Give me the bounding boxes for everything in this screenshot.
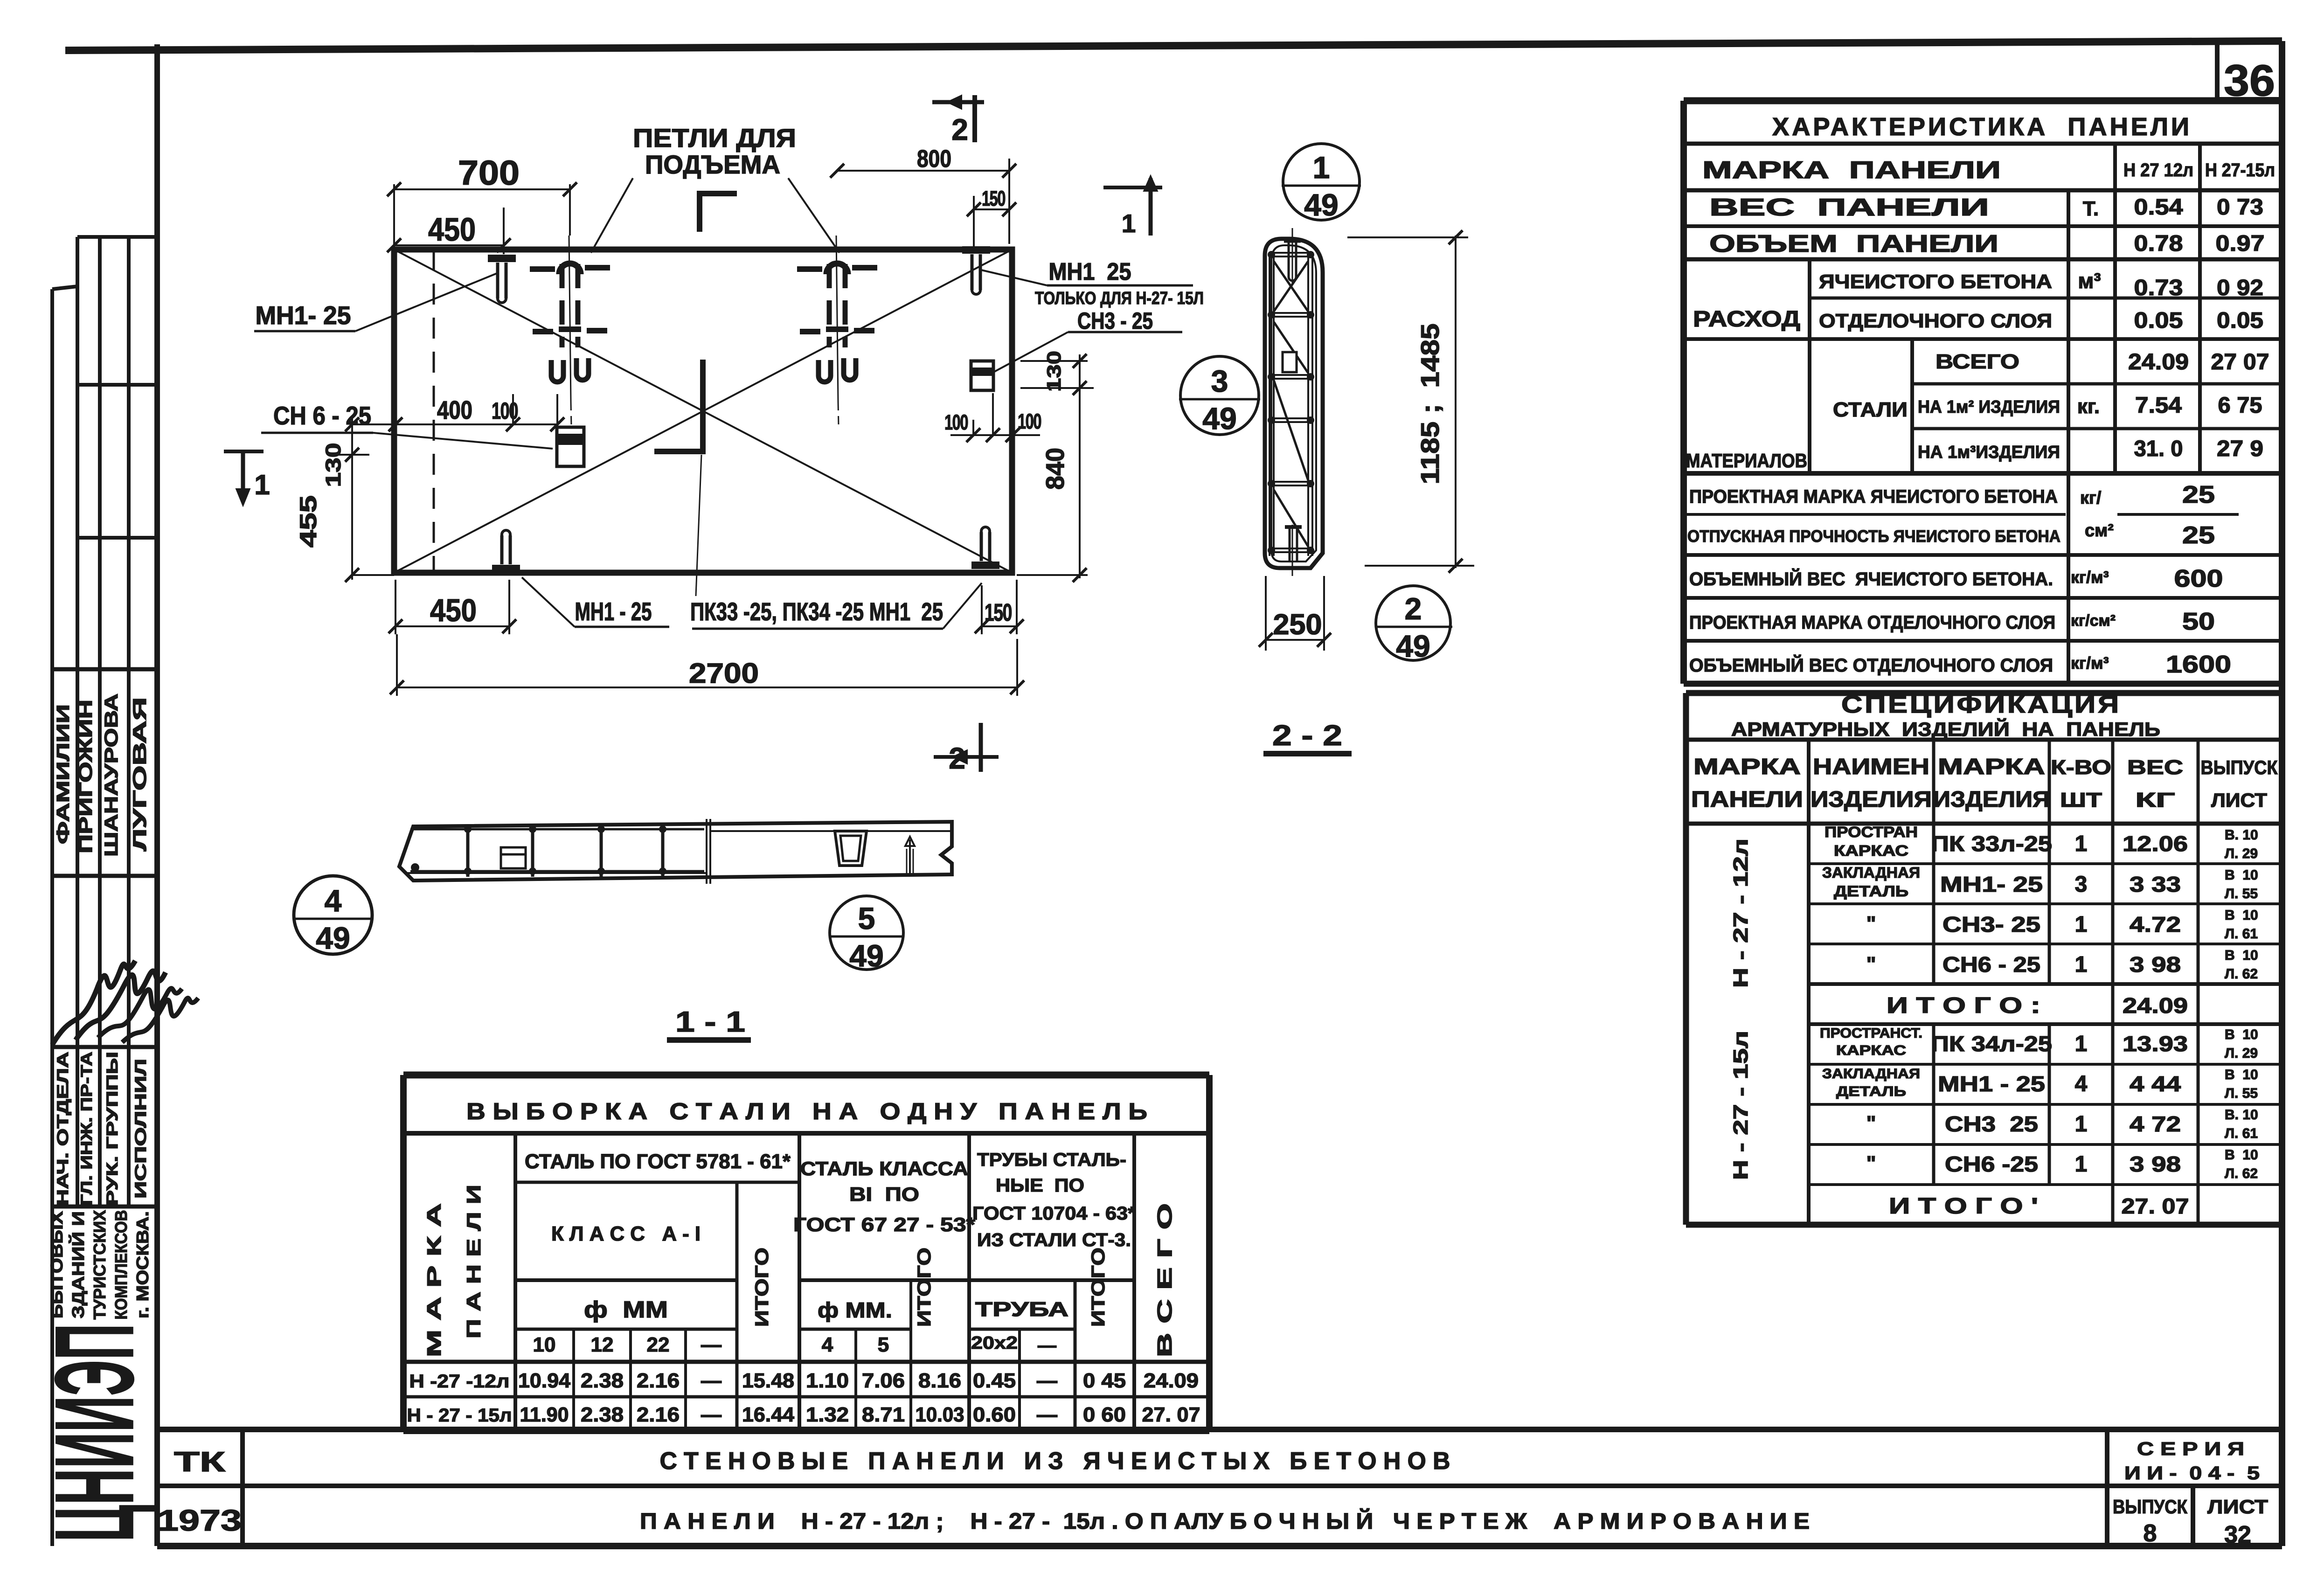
detail circle 1/49 [1282, 144, 1361, 222]
svg-text:ПРИГОЖИН: ПРИГОЖИН [76, 700, 96, 853]
svg-text:4 72: 4 72 [2130, 1112, 2181, 1136]
svg-text:10.03: 10.03 [916, 1403, 964, 1426]
svg-text:150: 150 [985, 599, 1012, 626]
svg-text:4: 4 [325, 883, 342, 918]
svg-text:455: 455 [295, 495, 321, 548]
svg-text:МН1- 25: МН1- 25 [256, 301, 351, 330]
svg-text:6 75: 6 75 [2218, 393, 2262, 418]
svg-text:1: 1 [2075, 952, 2088, 977]
svg-text:С Е Р И Я: С Е Р И Я [2137, 1439, 2244, 1459]
svg-text:3 33: 3 33 [2130, 872, 2181, 896]
svg-text:2.16: 2.16 [637, 1369, 680, 1392]
dim 400 100 left [388, 394, 564, 431]
svg-text:24.09: 24.09 [2128, 350, 2189, 374]
svg-text:50: 50 [2182, 608, 2215, 635]
svg-text:ЗАКЛАДНАЯ: ЗАКЛАДНАЯ [1822, 864, 1920, 881]
svg-text:НА 1м² ИЗДЕЛИЯ: НА 1м² ИЗДЕЛИЯ [1918, 397, 2060, 417]
svg-text:22: 22 [647, 1333, 670, 1356]
svg-text:1 - 1: 1 - 1 [675, 1006, 745, 1038]
svg-text:В 10: В 10 [2225, 908, 2258, 923]
svg-text:0.97: 0.97 [2216, 231, 2265, 256]
svg-text:МН1 - 25: МН1 - 25 [575, 597, 652, 626]
svg-text:СТАЛИ: СТАЛИ [1833, 398, 1908, 421]
svg-text:7.06: 7.06 [862, 1369, 905, 1392]
svg-text:ПК33 -25, ПК34 -25 МН1 25: ПК33 -25, ПК34 -25 МН1 25 [690, 598, 943, 626]
svg-text:0.78: 0.78 [2134, 231, 2183, 256]
svg-text:ОБЪЕМНЫЙ ВЕС ЯЧЕИСТОГО БЕТОНА: ОБЪЕМНЫЙ ВЕС ЯЧЕИСТОГО БЕТОНА. [1689, 568, 2053, 589]
svg-text:100: 100 [492, 398, 518, 424]
label 1-1 [667, 1006, 751, 1040]
svg-text:ИТОГО: ИТОГО [752, 1248, 772, 1327]
svg-text:1973: 1973 [158, 1504, 242, 1537]
svg-text:450: 450 [430, 593, 477, 628]
svg-text:ЗДАНИЙ И: ЗДАНИЙ И [68, 1211, 88, 1318]
svg-text:100: 100 [1018, 409, 1041, 433]
svg-text:—: — [701, 1369, 721, 1392]
svg-text:кг/см²: кг/см² [2071, 612, 2116, 630]
svg-text:12.06: 12.06 [2123, 832, 2188, 856]
svg-text:150: 150 [982, 187, 1006, 210]
svg-text:0.73: 0.73 [2134, 276, 2183, 300]
label petli dlya podyema [591, 123, 839, 253]
svg-text:КГ: КГ [2136, 789, 2175, 811]
svg-text:Л. 55: Л. 55 [2225, 1086, 2258, 1101]
lifting loop 2 [797, 236, 877, 425]
title block [157, 1429, 2282, 1546]
svg-text:ОБЪЕМ ПАНЕЛИ: ОБЪЕМ ПАНЕЛИ [1709, 230, 1998, 257]
svg-text:2: 2 [949, 742, 965, 775]
svg-text:М А Р К А: М А Р К А [423, 1203, 445, 1357]
svg-text:Л. 29: Л. 29 [2225, 1046, 2258, 1061]
table characteristics texts [1686, 113, 2275, 678]
svg-text:1: 1 [254, 469, 270, 500]
table steel texts [407, 1098, 1200, 1426]
svg-text:27 07: 27 07 [2211, 350, 2269, 374]
svg-text:В 10: В 10 [2225, 1067, 2258, 1082]
svg-text:ГОСТ 10704 - 63*: ГОСТ 10704 - 63* [972, 1203, 1136, 1224]
svg-text:": " [1866, 953, 1876, 976]
svg-text:2: 2 [951, 113, 968, 146]
dim 250 below section [1259, 576, 1331, 651]
label MH1-25 top left [254, 273, 498, 331]
svg-text:кг.: кг. [2077, 395, 2100, 418]
svg-text:ХАРАКТЕРИСТИКА ПАНЕЛИ: ХАРАКТЕРИСТИКА ПАНЕЛИ [1772, 113, 2192, 141]
embedded part CH6-25 [557, 427, 584, 466]
svg-text:Л. 61: Л. 61 [2225, 1126, 2258, 1141]
svg-text:1: 1 [1313, 150, 1330, 185]
svg-text:кг/м³: кг/м³ [2071, 568, 2109, 587]
svg-text:10.94: 10.94 [518, 1369, 571, 1392]
svg-text:ДЕТАЛЬ: ДЕТАЛЬ [1834, 883, 1908, 900]
svg-text:—: — [1038, 1335, 1056, 1356]
svg-text:130: 130 [321, 443, 345, 487]
svg-text:11.90: 11.90 [520, 1403, 569, 1426]
svg-text:СН3 - 25: СН3 - 25 [1077, 308, 1153, 334]
stamp names column (rotated) [54, 693, 150, 857]
svg-text:И И - 0 4 - 5: И И - 0 4 - 5 [2124, 1463, 2260, 1484]
table specification texts [1691, 691, 2278, 1219]
svg-text:ШАНАУРОВА: ШАНАУРОВА [101, 693, 122, 857]
svg-text:ИЗ СТАЛИ СТ-3.: ИЗ СТАЛИ СТ-3. [977, 1230, 1131, 1250]
label CH 6-25 left [261, 401, 553, 449]
svg-text:400: 400 [437, 395, 472, 424]
svg-text:—: — [1037, 1369, 1057, 1392]
svg-text:см²: см² [2085, 521, 2114, 541]
svg-text:Л. 62: Л. 62 [2225, 1166, 2258, 1181]
section mark 1 right [1103, 175, 1162, 238]
svg-text:49: 49 [1396, 629, 1430, 663]
svg-text:8.16: 8.16 [918, 1369, 961, 1392]
svg-text:ПРОСТРАНСТ.: ПРОСТРАНСТ. [1820, 1026, 1922, 1041]
svg-text:ПК 34л-25: ПК 34л-25 [1931, 1032, 2052, 1056]
dim 100 100 right [944, 393, 1041, 442]
svg-text:Л. 55: Л. 55 [2225, 886, 2258, 901]
anchor MH1-25 bottom right [971, 527, 999, 565]
panel diagonal 2 [394, 250, 1012, 573]
svg-text:31. 0: 31. 0 [2134, 437, 2183, 461]
svg-text:г. МОСКВА.: г. МОСКВА. [133, 1211, 152, 1318]
dim 130 right [1020, 351, 1094, 395]
svg-text:3 98: 3 98 [2130, 1152, 2181, 1176]
svg-text:1: 1 [1122, 209, 1136, 238]
svg-text:СН6 -25: СН6 -25 [1945, 1152, 2038, 1176]
svg-text:ДЕТАЛЬ: ДЕТАЛЬ [1836, 1084, 1906, 1099]
svg-text:ГЛ. ИНЖ. ПР-ТА: ГЛ. ИНЖ. ПР-ТА [78, 1052, 96, 1206]
dim 450 bottom [388, 580, 516, 634]
svg-text:49: 49 [1202, 401, 1236, 436]
section 2-2 reinforcement cage [1268, 251, 1314, 556]
svg-text:": " [1866, 1112, 1876, 1135]
svg-text:8: 8 [2144, 1520, 2157, 1547]
svg-text:2700: 2700 [689, 658, 759, 689]
svg-text:МАРКА: МАРКА [1938, 755, 2045, 779]
svg-text:16.44: 16.44 [742, 1403, 795, 1426]
svg-text:И Т О Г О ': И Т О Г О ' [1889, 1194, 2038, 1219]
svg-text:ВСЕГО: ВСЕГО [1936, 350, 2019, 373]
label MH1 25 right with leader [979, 258, 1204, 308]
svg-text:НАИМЕН: НАИМЕН [1813, 755, 1929, 779]
svg-text:КАРКАС: КАРКАС [1834, 842, 1908, 859]
svg-text:ПК 33л-25: ПК 33л-25 [1931, 832, 2052, 856]
svg-text:ф ММ.: ф ММ. [818, 1298, 892, 1322]
lifting loop 1 [530, 236, 610, 425]
svg-text:К Л А С С А - I: К Л А С С А - I [551, 1222, 701, 1245]
dim 840 right vertical [1017, 388, 1088, 582]
section mark 1 left [224, 451, 270, 506]
svg-text:СН3 25: СН3 25 [1945, 1112, 2038, 1136]
svg-text:РУК. ГРУППЫ: РУК. ГРУППЫ [104, 1052, 121, 1206]
svg-text:КОМПЛЕКСОВ: КОМПЛЕКСОВ [111, 1210, 131, 1320]
panel dashed reference line [433, 250, 435, 573]
svg-text:БЫТОВЫХ: БЫТОВЫХ [47, 1211, 66, 1318]
svg-text:ПАНЕЛИ: ПАНЕЛИ [1691, 787, 1803, 812]
dim 450 top [387, 208, 511, 254]
svg-text:7.54: 7.54 [2135, 393, 2182, 418]
svg-text:700: 700 [458, 153, 520, 192]
svg-text:ЛУГОВАЯ: ЛУГОВАЯ [130, 697, 150, 851]
svg-text:600: 600 [2174, 565, 2223, 592]
svg-text:24.09: 24.09 [1144, 1369, 1199, 1392]
label CH3-25 right with leader [994, 308, 1182, 372]
svg-text:Н - 27 - 12л: Н - 27 - 12л [1729, 839, 1752, 988]
svg-text:СПЕЦИФИКАЦИЯ: СПЕЦИФИКАЦИЯ [1841, 691, 2121, 718]
svg-text:И Т О Г О :: И Т О Г О : [1887, 993, 2040, 1018]
section mark 2 top [932, 95, 984, 146]
svg-text:—: — [701, 1403, 721, 1426]
svg-text:15.48: 15.48 [742, 1369, 794, 1392]
svg-text:2.38: 2.38 [581, 1369, 624, 1392]
svg-text:Н -27 -12л: Н -27 -12л [409, 1371, 510, 1392]
svg-text:Л. 29: Л. 29 [2225, 846, 2258, 861]
svg-text:1600: 1600 [2166, 651, 2231, 678]
svg-text:РАСХОД: РАСХОД [1693, 307, 1800, 332]
svg-text:П А Н Е Л И: П А Н Е Л И [463, 1185, 485, 1338]
svg-text:0.45: 0.45 [973, 1369, 1016, 1392]
section 1-1 embedded box detail [835, 831, 867, 866]
svg-text:МАРКА: МАРКА [1693, 755, 1801, 779]
svg-text:1: 1 [2075, 912, 2088, 937]
detail circle 2/49 [1375, 586, 1452, 663]
svg-text:0 73: 0 73 [2217, 195, 2263, 220]
svg-text:ПОДЪЕМА: ПОДЪЕМА [645, 150, 780, 179]
svg-text:Н 27 12л: Н 27 12л [2123, 160, 2193, 180]
svg-text:49: 49 [1304, 187, 1338, 222]
svg-text:ШТ: ШТ [2060, 789, 2102, 811]
svg-text:СН 6 - 25: СН 6 - 25 [273, 401, 371, 430]
svg-text:ВЫПУСК: ВЫПУСК [2113, 1496, 2187, 1518]
svg-text:НАЧ. ОТДЕЛА: НАЧ. ОТДЕЛА [54, 1052, 72, 1206]
svg-text:ВЫПУСК: ВЫПУСК [2201, 756, 2278, 778]
svg-text:450: 450 [428, 211, 476, 248]
svg-text:В С Е Г О: В С Е Г О [1153, 1203, 1176, 1357]
svg-text:ф ММ: ф ММ [584, 1297, 668, 1323]
svg-text:ИТОГО: ИТОГО [1088, 1248, 1109, 1327]
svg-text:К-ВО: К-ВО [2051, 756, 2111, 779]
svg-text:2: 2 [1405, 591, 1422, 626]
svg-text:2.38: 2.38 [581, 1403, 624, 1426]
svg-text:1: 1 [2075, 1152, 2088, 1177]
svg-text:": " [1866, 912, 1876, 935]
svg-text:КАРКАС: КАРКАС [1836, 1043, 1906, 1058]
svg-text:СН6 - 25: СН6 - 25 [1942, 952, 2040, 977]
section 1-1 reinforcement [410, 825, 704, 877]
page number box 36 [2217, 44, 2282, 105]
svg-text:1: 1 [2075, 1112, 2088, 1137]
svg-text:Т.: Т. [2083, 197, 2099, 220]
svg-text:ТРУБА: ТРУБА [975, 1298, 1068, 1321]
svg-text:ЛИСТ: ЛИСТ [2211, 789, 2267, 811]
svg-text:АРМАТУРНЫХ ИЗДЕЛИЙ НА ПАНЕЛ: АРМАТУРНЫХ ИЗДЕЛИЙ НА ПАНЕЛЬ [1731, 718, 2160, 740]
svg-text:ОБЪЕМНЫЙ ВЕС ОТДЕЛОЧНОГО СЛОЯ: ОБЪЕМНЫЙ ВЕС ОТДЕЛОЧНОГО СЛОЯ [1689, 654, 2053, 676]
svg-text:840: 840 [1041, 448, 1069, 490]
svg-text:Л. 61: Л. 61 [2225, 926, 2258, 942]
svg-text:100: 100 [944, 410, 968, 434]
section 2-2 bottom anchor [1285, 525, 1302, 576]
svg-text:4.72: 4.72 [2130, 912, 2181, 936]
svg-text:13.93: 13.93 [2123, 1032, 2188, 1056]
svg-text:250: 250 [1273, 609, 1322, 641]
svg-text:МН1 25: МН1 25 [1049, 258, 1131, 285]
svg-text:0 92: 0 92 [2217, 276, 2263, 300]
svg-text:ТУРИСТСКИХ: ТУРИСТСКИХ [90, 1210, 109, 1320]
anchor MH1-25 top left [488, 258, 516, 303]
svg-text:В 10: В 10 [2225, 948, 2258, 963]
svg-text:м³: м³ [2078, 269, 2101, 293]
svg-text:5: 5 [878, 1333, 889, 1356]
svg-text:3: 3 [2075, 872, 2088, 897]
svg-text:24.09: 24.09 [2123, 993, 2188, 1018]
svg-text:25: 25 [2182, 522, 2215, 549]
svg-text:ПЕТЛИ ДЛЯ: ПЕТЛИ ДЛЯ [633, 123, 796, 153]
section 2-2 top anchor [1284, 228, 1301, 284]
svg-text:ТРУБЫ СТАЛЬ-: ТРУБЫ СТАЛЬ- [977, 1150, 1126, 1170]
svg-text:1: 1 [2075, 832, 2088, 856]
svg-text:ИЗДЕЛИЯ: ИЗДЕЛИЯ [1933, 787, 2050, 812]
svg-text:2 - 2: 2 - 2 [1272, 720, 1342, 752]
svg-text:МАТЕРИАЛОВ: МАТЕРИАЛОВ [1686, 450, 1807, 472]
svg-text:0.54: 0.54 [2134, 195, 2183, 220]
svg-text:0.05: 0.05 [2134, 308, 2183, 333]
stamp role labels (rotated) [54, 1052, 150, 1206]
svg-text:ЛИСТ: ЛИСТ [2207, 1496, 2268, 1518]
section 1-1 element outline [399, 819, 952, 884]
detail circle 3/49 [1179, 356, 1260, 436]
svg-text:В 10: В 10 [2225, 1147, 2258, 1163]
svg-text:ЯЧЕИСТОГО БЕТОНА: ЯЧЕИСТОГО БЕТОНА [1819, 270, 2052, 292]
svg-text:ВЕС: ВЕС [2127, 756, 2183, 779]
svg-text:МАРКА ПАНЕЛИ: МАРКА ПАНЕЛИ [1702, 157, 2001, 184]
svg-text:В 10: В 10 [2225, 1027, 2258, 1042]
svg-text:1.10: 1.10 [806, 1369, 849, 1392]
panel diagonal 1 [394, 250, 1012, 573]
dim 2700 bottom [390, 634, 1024, 696]
svg-text:С Т Е Н О В Ы Е П А Н Е Л И: С Т Е Н О В Ы Е П А Н Е Л И И З Я Ч Е И … [660, 1448, 1450, 1475]
title block texts [158, 1439, 2268, 1548]
detail circle 5/49 [829, 896, 904, 973]
detail circle 4/49 [293, 876, 373, 955]
svg-text:ГОСТ 67 27 - 53*: ГОСТ 67 27 - 53* [793, 1213, 976, 1235]
svg-text:ТК: ТК [174, 1446, 226, 1477]
svg-text:В 10: В 10 [2225, 867, 2258, 883]
anchor MH1-25 top right [962, 250, 990, 294]
svg-text:4: 4 [822, 1333, 833, 1356]
panel centre mark lower [654, 360, 703, 451]
svg-text:8.71: 8.71 [862, 1403, 905, 1426]
dim 150 bottom right [975, 580, 1024, 634]
stamp signatures (handwritten) [52, 961, 198, 1045]
svg-text:1.32: 1.32 [806, 1403, 849, 1426]
svg-text:Н 27-15л: Н 27-15л [2205, 160, 2275, 180]
svg-text:25: 25 [2182, 481, 2215, 508]
dim 150 top right [967, 187, 1016, 250]
svg-text:МН1 - 25: МН1 - 25 [1938, 1072, 2045, 1096]
svg-text:27 9: 27 9 [2217, 437, 2263, 461]
svg-text:В. 10: В. 10 [2225, 827, 2258, 843]
svg-text:27. 07: 27. 07 [1142, 1403, 1200, 1426]
svg-text:130: 130 [1043, 351, 1065, 392]
svg-text:ОТПУСКНАЯ ПРОЧНОСТЬ ЯЧЕИСТОГО: ОТПУСКНАЯ ПРОЧНОСТЬ ЯЧЕИСТОГО БЕТОНА [1687, 527, 2060, 546]
svg-text:—: — [1037, 1403, 1057, 1426]
svg-text:МН1- 25: МН1- 25 [1940, 872, 2043, 896]
table characteristics panel [1684, 101, 2282, 684]
svg-text:1: 1 [2075, 1032, 2088, 1056]
svg-text:49: 49 [849, 938, 883, 973]
svg-text:0.05: 0.05 [2217, 308, 2263, 333]
svg-text:20x2: 20x2 [971, 1333, 1018, 1353]
stamp logo ЦНИИЭП (rotated) [32, 1324, 157, 1542]
stamp column grid [52, 237, 157, 1546]
dim 700 top [387, 153, 577, 250]
svg-text:кг/: кг/ [2080, 488, 2102, 508]
svg-text:П А Н Е Л И Н - 27 - 12л ;: П А Н Е Л И Н - 27 - 12л ; Н - 27 - 15л … [640, 1508, 1810, 1534]
label MH1-25 bottom with leader [522, 577, 669, 627]
panel centre mark upper [700, 194, 737, 232]
table specification reinforcement [1686, 693, 2282, 1225]
dim 1185 1485 right of section [1347, 230, 1474, 573]
svg-text:В. 10: В. 10 [2225, 1107, 2258, 1123]
svg-text:СН3- 25: СН3- 25 [1942, 912, 2040, 936]
svg-text:32: 32 [2224, 1521, 2251, 1548]
section 1-1 anchor with triangle [905, 837, 915, 874]
svg-text:СТАЛЬ ПО ГОСТ 5781 - 61*: СТАЛЬ ПО ГОСТ 5781 - 61* [525, 1150, 791, 1173]
svg-text:2.16: 2.16 [637, 1403, 680, 1426]
label 2-2 [1263, 720, 1352, 754]
stamp institution text (rotated) [47, 1210, 152, 1320]
svg-text:ПРОЕКТНАЯ МАРКА ЯЧЕИСТОГО БЕТО: ПРОЕКТНАЯ МАРКА ЯЧЕИСТОГО БЕТОНА [1689, 486, 2058, 507]
svg-text:ИСПОЛНИЛ: ИСПОЛНИЛ [132, 1059, 150, 1199]
svg-text:СТАЛЬ КЛАССА: СТАЛЬ КЛАССА [800, 1158, 968, 1179]
svg-text:49: 49 [316, 921, 350, 955]
svg-text:ИТОГО: ИТОГО [914, 1248, 935, 1327]
svg-text:1185 ; 1485: 1185 ; 1485 [1415, 324, 1444, 485]
svg-text:Л. 62: Л. 62 [2225, 966, 2258, 982]
svg-text:НЫЕ ПО: НЫЕ ПО [996, 1175, 1084, 1196]
table steel per panel [403, 1075, 1209, 1431]
svg-text:ПРОЕКТНАЯ МАРКА ОТДЕЛОЧНОГО СЛ: ПРОЕКТНАЯ МАРКА ОТДЕЛОЧНОГО СЛОЯ [1689, 612, 2055, 633]
panel outline [394, 250, 1012, 573]
svg-text:ПРОСТРАН: ПРОСТРАН [1825, 824, 1918, 840]
svg-text:4 44: 4 44 [2130, 1072, 2181, 1096]
svg-text:0 45: 0 45 [1083, 1369, 1126, 1392]
section mark 2 bottom [934, 723, 999, 775]
dim 800 top right [830, 146, 1016, 244]
svg-text:5: 5 [858, 901, 875, 936]
svg-text:0 60: 0 60 [1083, 1403, 1126, 1426]
svg-text:Н - 27 - 15л: Н - 27 - 15л [407, 1405, 512, 1426]
svg-text:800: 800 [917, 146, 951, 173]
svg-text:0.60: 0.60 [973, 1403, 1016, 1426]
anchor MH1-25 bottom left [492, 530, 520, 569]
svg-text:3 98: 3 98 [2130, 952, 2181, 977]
svg-text:ЗАКЛАДНАЯ: ЗАКЛАДНАЯ [1822, 1066, 1920, 1082]
svg-text:3: 3 [1211, 364, 1228, 398]
svg-text:—: — [701, 1333, 721, 1356]
svg-text:ЦНИИЭП: ЦНИИЭП [32, 1324, 157, 1542]
svg-text:ТОЛЬКО ДЛЯ Н-27- 15Л: ТОЛЬКО ДЛЯ Н-27- 15Л [1035, 289, 1204, 308]
svg-text:В Ы Б О Р К А С Т А Л И Н: В Ы Б О Р К А С Т А Л И Н А О Д Н У П А … [466, 1098, 1147, 1124]
embedded part CH3-25 [971, 361, 993, 390]
svg-text:Н - 27 - 15л: Н - 27 - 15л [1729, 1031, 1752, 1180]
svg-text:ОТДЕЛОЧНОГО СЛОЯ: ОТДЕЛОЧНОГО СЛОЯ [1819, 310, 2052, 332]
label PK33l-25 PK34l-25 MH1 25 with leaders [690, 455, 982, 629]
svg-text:ИЗДЕЛИЯ: ИЗДЕЛИЯ [1811, 787, 1932, 812]
svg-text:12: 12 [591, 1333, 614, 1356]
svg-text:ФАМИЛИИ: ФАМИЛИИ [54, 704, 73, 844]
svg-text:ВI ПО: ВI ПО [849, 1183, 919, 1205]
svg-text:": " [1866, 1152, 1876, 1175]
svg-text:27. 07: 27. 07 [2122, 1194, 2189, 1218]
svg-text:ВЕС ПАНЕЛИ: ВЕС ПАНЕЛИ [1709, 194, 1989, 221]
